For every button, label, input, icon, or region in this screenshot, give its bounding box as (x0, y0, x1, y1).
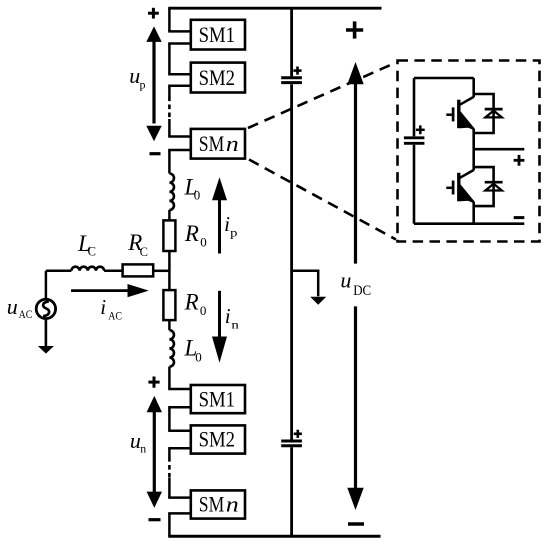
svg-text:SM2: SM2 (199, 427, 235, 452)
svg-text:0: 0 (200, 303, 207, 318)
svg-text:DC: DC (353, 283, 371, 299)
svg-text:SM: SM (199, 492, 224, 517)
svg-text:p: p (140, 77, 146, 91)
svg-text:u: u (340, 267, 351, 292)
svg-text:n: n (140, 443, 146, 455)
svg-text:SM1: SM1 (199, 386, 235, 411)
svg-text:SM2: SM2 (199, 65, 235, 90)
svg-text:n: n (226, 131, 239, 156)
svg-text:i: i (224, 212, 230, 236)
svg-text:0: 0 (194, 188, 201, 203)
svg-text:u: u (7, 294, 18, 319)
svg-text:C: C (140, 245, 148, 259)
svg-text:u: u (130, 428, 141, 453)
svg-text:n: n (231, 319, 239, 331)
svg-text:0: 0 (195, 350, 202, 365)
svg-text:i: i (100, 295, 106, 319)
svg-text:C: C (88, 244, 96, 258)
svg-text:n: n (226, 492, 239, 517)
svg-text:AC: AC (19, 309, 33, 321)
svg-text:R: R (184, 221, 199, 246)
svg-text:R: R (184, 289, 199, 314)
svg-text:0: 0 (200, 234, 207, 249)
svg-text:p: p (230, 226, 237, 240)
svg-text:i: i (225, 304, 231, 328)
svg-text:SM1: SM1 (199, 22, 235, 47)
svg-text:AC: AC (108, 310, 122, 322)
svg-text:SM: SM (199, 131, 224, 156)
